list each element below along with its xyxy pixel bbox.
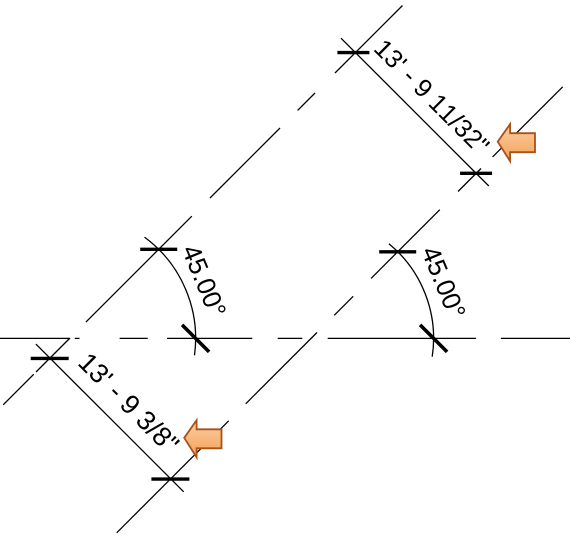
D1 start tick xyxy=(337,51,369,54)
angular dimension A1 text 45.00 xyxy=(181,243,226,318)
dimension D2 text 13' - 9 3/8" xyxy=(78,352,181,455)
horizontal reference plane dash 4 xyxy=(278,337,303,339)
orange arrow cursor 2 xyxy=(184,420,221,457)
reference plane R2 dash 5 xyxy=(246,333,317,404)
A2 lower tick xyxy=(420,325,447,352)
orange arrow cursor 1 xyxy=(498,124,535,161)
A2 upper tick xyxy=(379,250,416,253)
dimension D1 line xyxy=(341,38,489,186)
angular dimension A2 text 45.00 xyxy=(421,245,466,320)
reference plane R2 dash 4 xyxy=(334,296,353,315)
horizontal reference plane dash 1b xyxy=(75,337,80,339)
A1 upper tick xyxy=(140,248,177,251)
reference plane R2 dash 2 xyxy=(458,169,481,192)
reference plane R1 dash 6 xyxy=(3,374,34,405)
reference plane R1 dash 1 xyxy=(335,6,403,74)
D1 end tick xyxy=(460,172,492,175)
reference plane R1 dash 4 xyxy=(86,216,192,322)
angular dimension A2 arc xyxy=(389,244,434,357)
reference plane R2 dash 3 xyxy=(371,210,440,279)
angular dimension A1 arc xyxy=(145,237,196,355)
dimension D1 text 13' - 9 11/32" xyxy=(374,38,491,155)
horizontal reference plane dash 5 xyxy=(328,337,476,339)
reference plane R1 dash 2 xyxy=(298,93,315,110)
horizontal reference plane dash 2 xyxy=(120,337,148,339)
dimension D2 line xyxy=(36,344,184,492)
reference plane R1 dash 3 xyxy=(210,128,280,198)
D2 end tick xyxy=(151,477,189,480)
A1 lower tick xyxy=(182,325,209,352)
horizontal reference plane dash 1a xyxy=(0,337,70,339)
reference plane R2 dash 1 xyxy=(493,87,563,157)
D2 start tick xyxy=(31,357,69,360)
horizontal reference plane dash 3 xyxy=(167,337,252,339)
horizontal reference plane dash 6 xyxy=(501,337,570,339)
reference plane R1 dash 5 xyxy=(36,339,70,373)
reference plane R2 dash 6 xyxy=(117,421,229,533)
